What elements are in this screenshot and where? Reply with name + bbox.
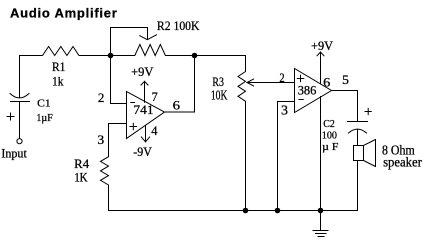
svg-text:3: 3 (281, 102, 288, 117)
svg-text:speaker: speaker (383, 154, 422, 169)
svg-text:741: 741 (133, 102, 153, 117)
svg-text:2: 2 (98, 90, 105, 105)
svg-text:C2: C2 (323, 118, 335, 130)
svg-text:4: 4 (151, 123, 158, 138)
svg-text:+9V: +9V (131, 65, 153, 79)
svg-text:µ F: µ F (322, 141, 338, 153)
svg-text:100: 100 (322, 129, 337, 141)
svg-text:+9V: +9V (311, 39, 333, 53)
svg-text:1µF: 1µF (36, 112, 52, 124)
svg-text:6: 6 (323, 75, 331, 90)
svg-text:3: 3 (97, 132, 104, 147)
svg-text:10K: 10K (211, 88, 228, 103)
svg-text:1K: 1K (74, 171, 88, 185)
svg-text:386: 386 (298, 83, 317, 98)
svg-text:R4: R4 (74, 157, 89, 171)
svg-text:R1: R1 (52, 60, 65, 74)
svg-text:Audio Amplifier: Audio Amplifier (10, 6, 118, 21)
svg-text:6: 6 (173, 97, 181, 112)
svg-text:C1: C1 (37, 97, 51, 109)
svg-text:2: 2 (279, 70, 284, 85)
svg-text:-9V: -9V (133, 145, 152, 159)
svg-text:1k: 1k (52, 75, 64, 89)
svg-text:R2 100K: R2 100K (157, 19, 200, 33)
svg-text:Input: Input (1, 147, 27, 161)
svg-text:5: 5 (342, 72, 349, 87)
